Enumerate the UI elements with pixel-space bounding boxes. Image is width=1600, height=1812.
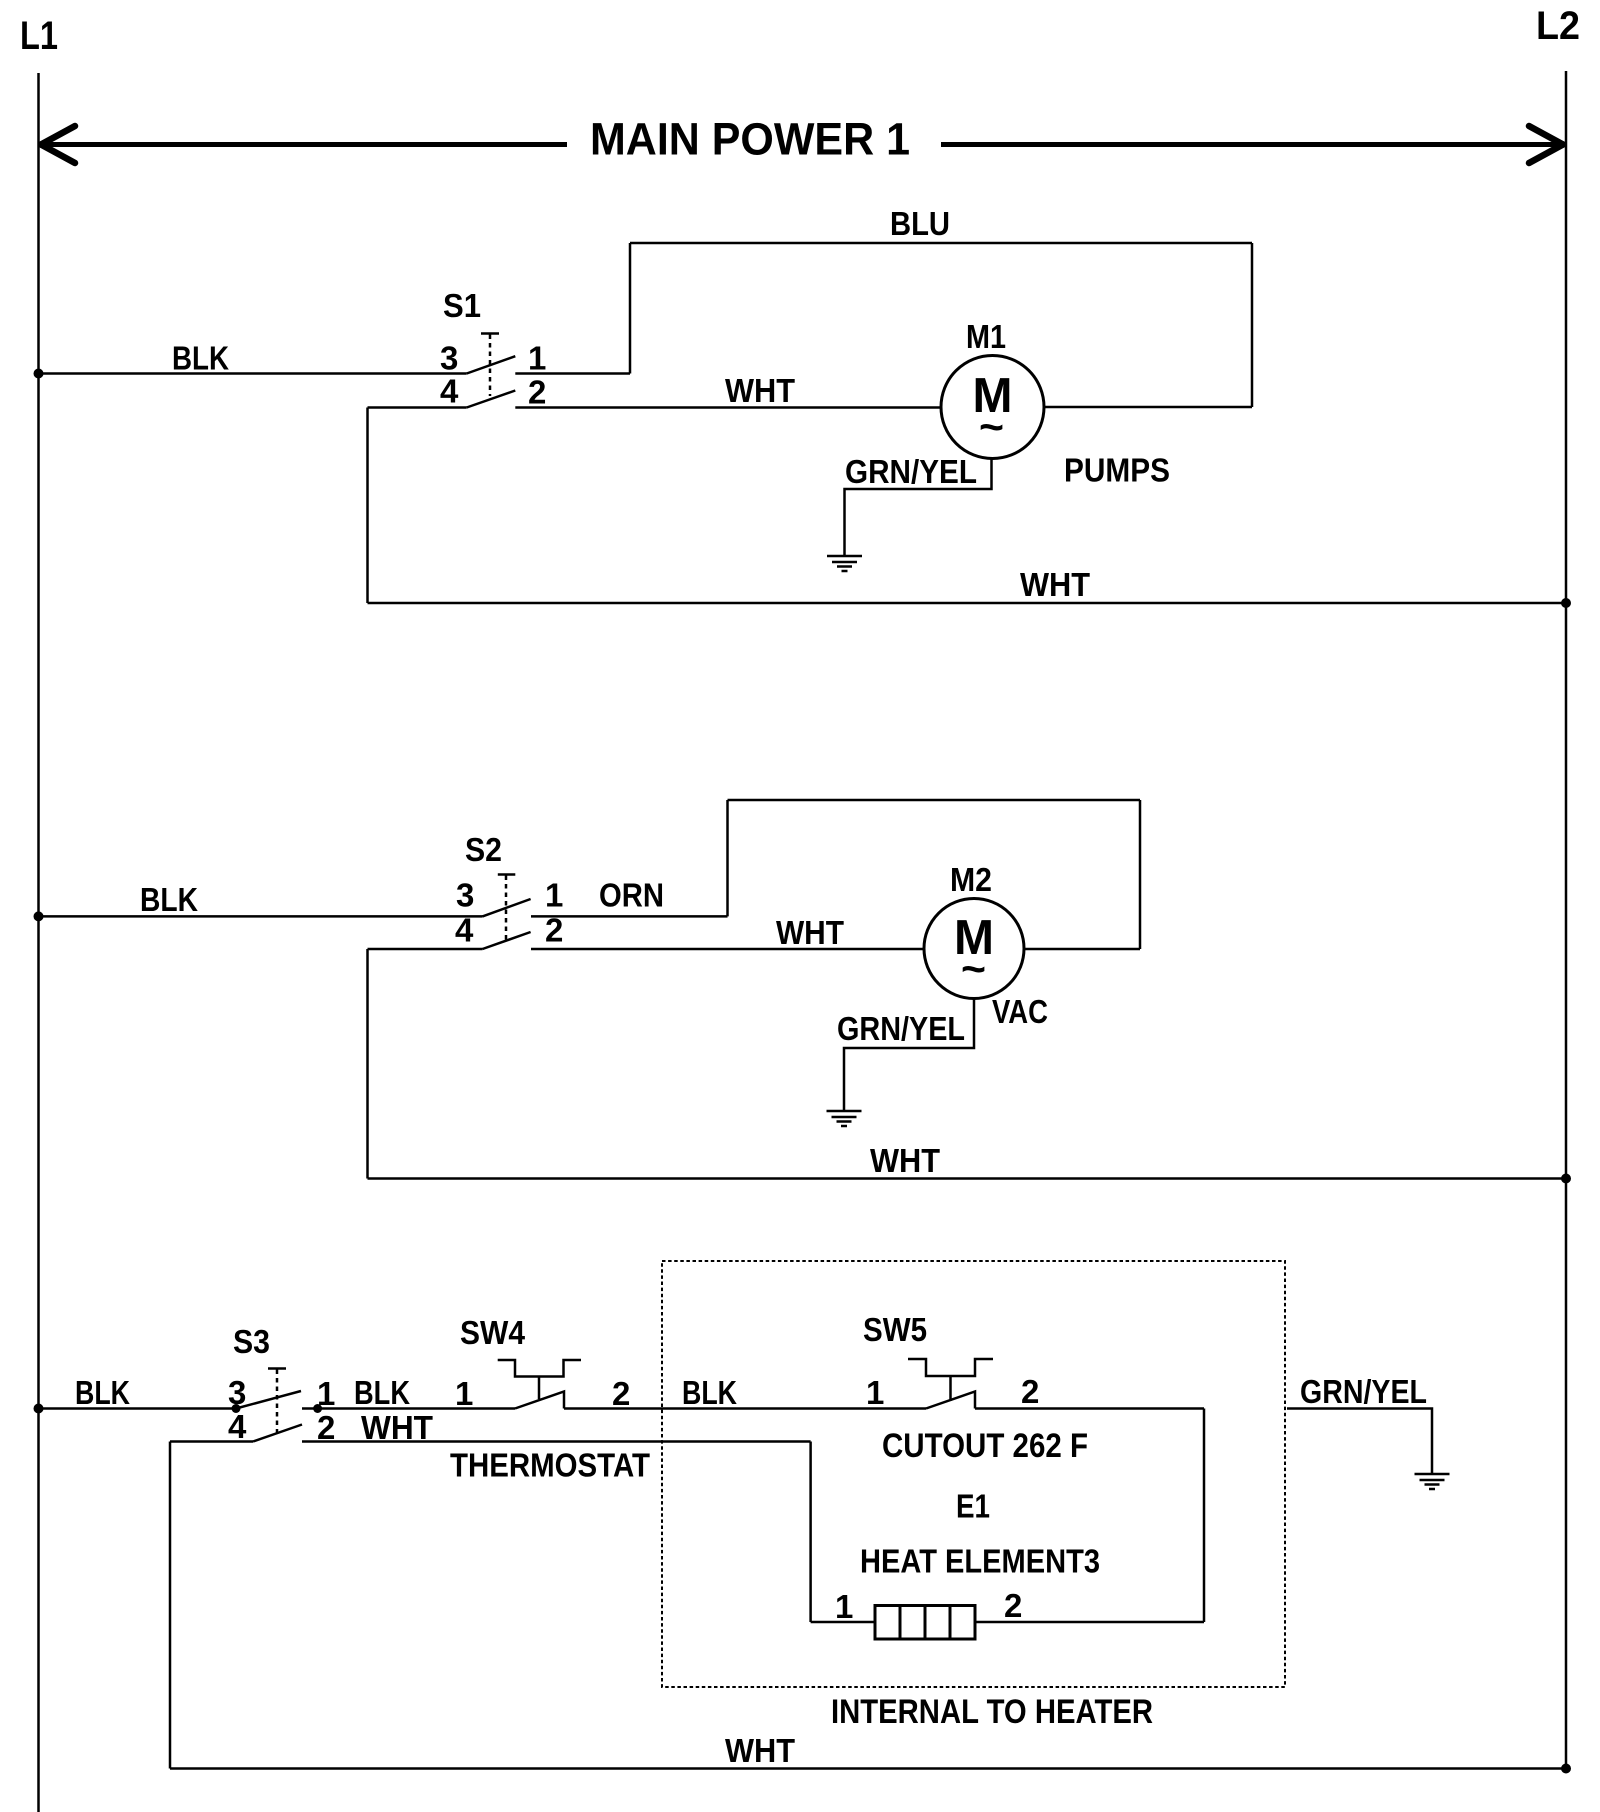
switch S1 blade pole A bbox=[467, 356, 516, 373]
switch SW5 thermostat bbox=[908, 1359, 993, 1409]
svg-text:BLK: BLK bbox=[140, 881, 198, 918]
switch S1 mechanical link bbox=[481, 334, 499, 397]
svg-text:~: ~ bbox=[979, 403, 1004, 450]
wire BLK SW5 to drop bbox=[975, 1407, 1204, 1410]
wire GRN/YEL rung3 bbox=[1287, 1409, 1432, 1474]
node junction dot L1 rung3 bbox=[34, 1404, 44, 1414]
svg-text:2: 2 bbox=[1021, 1373, 1039, 1410]
svg-text:INTERNAL TO HEATER: INTERNAL TO HEATER bbox=[831, 1693, 1153, 1731]
ground symbol rung2 bbox=[827, 1111, 862, 1126]
svg-text:BLK: BLK bbox=[75, 1374, 130, 1411]
svg-text:~: ~ bbox=[961, 945, 986, 992]
svg-text:L2: L2 bbox=[1536, 4, 1580, 48]
node junction dot L2 bottom bbox=[1561, 1764, 1571, 1774]
svg-text:ORN: ORN bbox=[599, 877, 664, 914]
svg-text:HEAT ELEMENT3: HEAT ELEMENT3 bbox=[860, 1543, 1100, 1580]
wire S3 pole B long riser bbox=[169, 1442, 172, 1769]
wire BLK S3 pin1 to SW4 bbox=[302, 1407, 515, 1410]
wire M2 ground stem bbox=[844, 999, 974, 1111]
svg-text:S2: S2 bbox=[465, 831, 502, 868]
svg-text:GRN/YEL: GRN/YEL bbox=[1300, 1373, 1427, 1410]
wire WHT bottom return bbox=[170, 1767, 1566, 1770]
motor M2 bbox=[924, 899, 1024, 999]
switch S3 blade pole B bbox=[253, 1425, 302, 1442]
ground symbol rung3 bbox=[1415, 1474, 1450, 1489]
svg-text:SW4: SW4 bbox=[460, 1314, 526, 1351]
svg-text:WHT: WHT bbox=[1020, 566, 1090, 603]
node junction dot S3 pin3 bbox=[232, 1404, 241, 1413]
node junction dot L1 rung1 bbox=[34, 369, 44, 379]
switch S3 blade pole A bbox=[236, 1391, 301, 1409]
svg-text:4: 4 bbox=[228, 1408, 247, 1445]
node junction dot S3 pin1 bbox=[313, 1404, 322, 1413]
wire WHT S2 pin2 to motor bbox=[531, 948, 924, 951]
svg-text:1: 1 bbox=[545, 877, 563, 914]
svg-text:S3: S3 bbox=[233, 1323, 270, 1360]
wire L1 rail bbox=[37, 73, 40, 1812]
svg-text:WHT: WHT bbox=[870, 1142, 940, 1179]
switch S2 blade pole B bbox=[483, 932, 531, 949]
svg-text:2: 2 bbox=[612, 1375, 630, 1412]
svg-text:PUMPS: PUMPS bbox=[1064, 452, 1170, 489]
svg-text:BLU: BLU bbox=[890, 205, 950, 242]
wire M2 right lead bbox=[1024, 948, 1140, 951]
wire ORN riser bbox=[726, 800, 729, 916]
svg-text:M1: M1 bbox=[966, 318, 1006, 355]
wire ORN S2 pin1 bbox=[531, 915, 728, 918]
wire BLU drop bbox=[1251, 243, 1254, 407]
wire M1 ground stem bbox=[845, 459, 992, 556]
switch S1 blade pole B bbox=[467, 391, 516, 408]
wire rung2 drop bbox=[1139, 800, 1142, 949]
svg-text:BLK: BLK bbox=[172, 340, 229, 377]
wire BLU riser bbox=[629, 243, 632, 374]
node junction dot L1 rung2 bbox=[34, 911, 44, 921]
svg-text:2: 2 bbox=[528, 374, 546, 411]
switch S2 blade pole A bbox=[483, 899, 531, 916]
node junction dot L2 rung1 bbox=[1561, 598, 1571, 608]
svg-text:L1: L1 bbox=[20, 14, 58, 58]
wire S1 pole B feed bbox=[368, 406, 467, 409]
heater element E1 body bbox=[875, 1606, 975, 1640]
wire S3 pole B feed bbox=[170, 1440, 253, 1443]
svg-text:WHT: WHT bbox=[725, 372, 795, 409]
svg-text:4: 4 bbox=[440, 373, 459, 410]
svg-text:1: 1 bbox=[866, 1374, 884, 1411]
svg-text:1: 1 bbox=[835, 1588, 853, 1625]
wire heater element right lead bbox=[975, 1621, 1204, 1624]
svg-text:M2: M2 bbox=[950, 861, 992, 898]
svg-text:3: 3 bbox=[456, 877, 474, 914]
wire rung2 top bbox=[728, 799, 1141, 802]
svg-text:2: 2 bbox=[1004, 1587, 1022, 1624]
wire heater element left lead bbox=[811, 1621, 875, 1624]
wire BLK rung3 bbox=[39, 1407, 237, 1410]
wire S1 pin1 to riser bbox=[515, 372, 630, 375]
svg-text:VAC: VAC bbox=[992, 993, 1048, 1030]
svg-text:WHT: WHT bbox=[361, 1409, 433, 1446]
node junction dot L2 rung2 bbox=[1561, 1174, 1571, 1184]
svg-text:S1: S1 bbox=[443, 287, 481, 324]
wire BLK rung2 bbox=[39, 915, 483, 918]
heater enclosure dashed box bbox=[662, 1261, 1285, 1687]
wire S2 pole B feed bbox=[368, 948, 483, 951]
wire WHT return rung2 bbox=[368, 1177, 1567, 1180]
switch S2 mechanical link bbox=[498, 875, 516, 941]
switch S3 mechanical link bbox=[268, 1369, 286, 1434]
wire heater right drop bbox=[1203, 1409, 1206, 1623]
svg-text:SW5: SW5 bbox=[863, 1311, 927, 1348]
svg-text:BLK: BLK bbox=[354, 1374, 410, 1411]
svg-text:GRN/YEL: GRN/YEL bbox=[845, 453, 977, 490]
svg-text:E1: E1 bbox=[956, 1488, 990, 1525]
MAIN POWER 1 dimension arrow bbox=[41, 114, 1563, 165]
svg-text:1: 1 bbox=[528, 340, 546, 377]
motor M1 bbox=[941, 356, 1044, 459]
wire BLU top bbox=[630, 242, 1252, 245]
svg-text:MAIN POWER 1: MAIN POWER 1 bbox=[590, 114, 910, 165]
wire heater left drop bbox=[809, 1442, 812, 1623]
wire BLK rung1 bbox=[39, 372, 467, 375]
wire WHT S3 pin2 to heater bbox=[302, 1440, 811, 1443]
svg-text:BLK: BLK bbox=[682, 1374, 737, 1411]
svg-text:CUTOUT 262 F: CUTOUT 262 F bbox=[882, 1427, 1088, 1465]
ground symbol rung1 bbox=[827, 556, 862, 571]
svg-text:WHT: WHT bbox=[776, 914, 844, 951]
wire WHT return rung1 bbox=[368, 602, 1567, 605]
svg-text:1: 1 bbox=[455, 1375, 473, 1412]
wire BLK SW4 to SW5 bbox=[564, 1407, 926, 1410]
svg-text:THERMOSTAT: THERMOSTAT bbox=[450, 1447, 650, 1484]
svg-text:4: 4 bbox=[455, 912, 474, 949]
wire S1 pole B riser bbox=[366, 408, 369, 604]
svg-text:3: 3 bbox=[440, 340, 458, 377]
wire WHT S1 pin2 to motor bbox=[515, 406, 941, 409]
switch SW4 thermostat bbox=[498, 1360, 581, 1409]
wire M1 right lead bbox=[1045, 406, 1253, 409]
wire L2 rail bbox=[1565, 71, 1568, 1769]
svg-text:GRN/YEL: GRN/YEL bbox=[837, 1010, 965, 1047]
svg-text:WHT: WHT bbox=[725, 1732, 795, 1769]
wire S2 pole B riser bbox=[366, 949, 369, 1179]
